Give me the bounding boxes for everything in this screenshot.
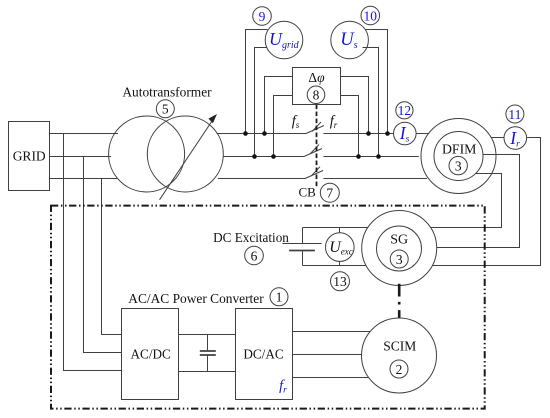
svg-text:AC/DC: AC/DC	[131, 347, 172, 362]
svg-text:6: 6	[251, 248, 258, 263]
label circle 2 SCIM	[390, 360, 408, 378]
bus B segment right of CB	[323, 156, 418, 158]
measurement tap wire to Us upper (10)	[365, 30, 387, 134]
measurement tap wire to Ugrid lower	[255, 48, 268, 157]
capacitor plate bottom	[200, 354, 216, 356]
AC/DC box	[122, 309, 179, 400]
junction bus A tap 3	[366, 131, 371, 136]
svg-text:Ugrid: Ugrid	[269, 29, 300, 51]
DC link wire top	[179, 334, 236, 336]
Uexc meter circle	[326, 233, 355, 262]
svg-text:13: 13	[333, 274, 347, 289]
CB control dashed line	[316, 105, 318, 189]
junction bus A tap 2	[262, 131, 267, 136]
autotransformer adjust arrow	[160, 121, 213, 200]
excitation top wire	[303, 227, 368, 229]
SG outer circle	[362, 211, 437, 286]
feed wire bus A to converter	[64, 134, 122, 371]
label circle 12	[396, 102, 413, 119]
junction bus B tap 1	[252, 154, 257, 159]
SCIM circle	[362, 318, 437, 393]
measurement tap wire to phase-box upper left	[265, 77, 293, 134]
CB switch blade phase B	[304, 149, 322, 157]
ammeter Ir	[504, 127, 527, 150]
measurement tap wire to Us lower	[363, 48, 379, 157]
capacitor stub bottom	[207, 355, 209, 372]
label circle 1	[270, 288, 288, 306]
voltmeter Ugrid	[265, 21, 303, 59]
autotransformer T5 coil 2	[147, 116, 223, 192]
label circle 11	[506, 105, 524, 123]
DC/AC box	[236, 309, 293, 400]
label circle 10	[361, 6, 380, 25]
feed wire bus B to converter	[84, 157, 122, 353]
measurement tap wire phase-box lower right	[341, 96, 359, 157]
svg-text:SG: SG	[390, 233, 408, 248]
GRID box	[9, 122, 50, 191]
svg-text:SCIM: SCIM	[383, 339, 416, 354]
measurement tap wire to Ugrid upper (9)	[246, 30, 268, 134]
junction bus B tap 4	[376, 154, 381, 159]
label circle 7	[320, 183, 339, 202]
label circle 6	[245, 246, 264, 265]
svg-text:CB: CB	[299, 184, 317, 199]
bus A segment right of CB	[323, 133, 393, 135]
svg-text:DFIM: DFIM	[442, 141, 477, 156]
svg-text:Autotransformer: Autotransformer	[122, 85, 212, 100]
svg-text:3: 3	[396, 252, 403, 267]
junction bus A tap 1	[243, 131, 248, 136]
dash-dot enclosure box	[51, 206, 485, 409]
wire grid phase A	[50, 133, 119, 135]
wire grid phase C	[50, 178, 118, 180]
Uexc stub top	[339, 228, 341, 233]
svg-text:Uexc: Uexc	[329, 239, 353, 257]
junction bus B tap 3	[356, 154, 361, 159]
measurement tap wire to phase-box lower left	[274, 96, 293, 157]
junction bus B tap 2	[271, 154, 276, 159]
svg-text:9: 9	[259, 9, 266, 24]
svg-text:2: 2	[396, 362, 403, 377]
shaft SG-SCIM	[398, 284, 401, 318]
svg-text:Δφ: Δφ	[308, 70, 325, 85]
converter output wire 2	[293, 354, 362, 356]
bus A segment left of CB	[217, 133, 306, 135]
svg-text:fr: fr	[330, 114, 338, 131]
phase detector box	[293, 68, 341, 105]
svg-text:1: 1	[276, 290, 283, 305]
svg-text:Us: Us	[340, 30, 357, 51]
svg-text:12: 12	[398, 103, 412, 118]
DC link wire bottom	[179, 371, 236, 373]
svg-text:3: 3	[455, 158, 462, 173]
bus C segment left of CB	[218, 178, 305, 180]
excitation bottom wire	[303, 265, 367, 267]
CB switch blade phase A	[306, 126, 324, 134]
rotor wire 1 Ir to SG	[432, 138, 540, 266]
battery short plate	[289, 250, 315, 252]
excitation left vertical upper	[302, 228, 304, 244]
measurement tap wire phase-box upper right	[341, 77, 369, 134]
svg-text:Is: Is	[399, 123, 410, 145]
svg-text:8: 8	[313, 88, 320, 103]
converter output wire 1	[293, 331, 371, 333]
svg-text:GRID: GRID	[13, 149, 46, 164]
Uexc stub bottom	[339, 261, 341, 265]
DFIM inner circle	[434, 132, 483, 181]
svg-text:5: 5	[162, 102, 169, 117]
wire grid phase B	[50, 156, 112, 158]
CB switch blade phase C	[305, 171, 323, 179]
label circle 9	[253, 7, 272, 26]
battery long plate	[282, 243, 321, 245]
svg-text:10: 10	[364, 8, 378, 23]
rotor wire 3 to SG	[431, 174, 502, 228]
autotransformer T5 coil 1	[109, 116, 185, 192]
bus C segment right of CB	[323, 178, 427, 180]
label circle 8	[307, 86, 325, 104]
capacitor stub top	[207, 335, 209, 352]
excitation left vertical lower	[302, 251, 304, 266]
feed wire bus C to converter	[102, 179, 122, 335]
label circle 3 DFIM	[449, 156, 467, 174]
rotor wire 1 to Ir	[491, 137, 504, 139]
svg-text:DC Excitation: DC Excitation	[213, 230, 289, 245]
DFIM outer circle	[421, 119, 496, 194]
voltmeter Us	[331, 21, 369, 59]
capacitor plate top	[200, 350, 216, 352]
svg-text:fs: fs	[292, 114, 300, 131]
label circle 5	[156, 100, 174, 118]
junction bus A tap 4	[385, 131, 390, 136]
svg-text:7: 7	[326, 185, 333, 200]
svg-text:AC/AC Power Converter: AC/AC Power Converter	[128, 291, 264, 306]
svg-text:Ir: Ir	[509, 128, 520, 150]
converter output wire 3	[293, 377, 369, 379]
label circle 3 SG	[390, 250, 408, 268]
bus B segment left of CB	[223, 156, 304, 158]
rotor wire 2 to SG	[437, 155, 520, 248]
svg-text:DC/AC: DC/AC	[243, 347, 284, 362]
svg-text:11: 11	[508, 107, 521, 122]
svg-text:fr: fr	[279, 378, 287, 396]
bus A segment after Is to DFIM	[416, 133, 428, 135]
ammeter Is	[394, 122, 417, 145]
SG inner circle	[377, 226, 422, 271]
label circle 13	[331, 272, 350, 291]
